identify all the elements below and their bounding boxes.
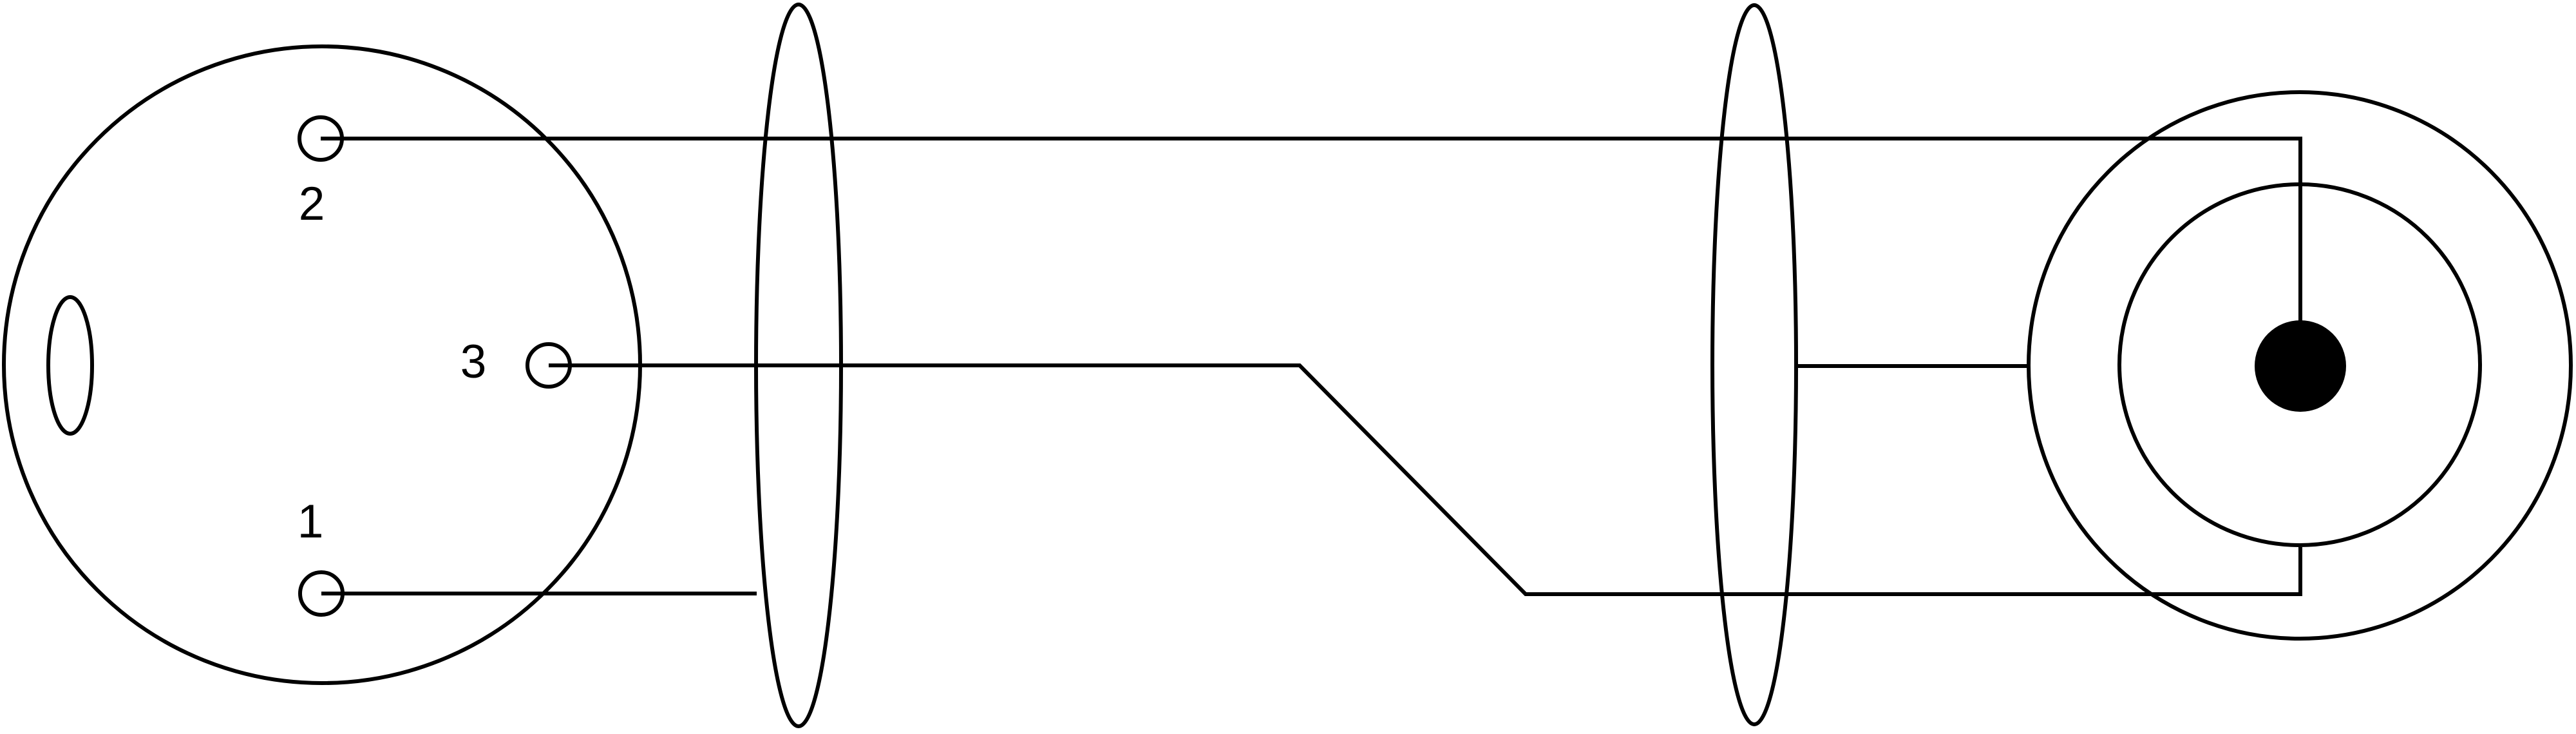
svg-text:2: 2 xyxy=(299,178,325,230)
XLR latch slot (small ellipse) xyxy=(48,297,92,434)
RCA center pin (filled dot) xyxy=(2255,320,2346,412)
wire pin3 to RCA sleeve (with diagonal jog) xyxy=(549,365,2300,594)
XLR connector shell (large circle) xyxy=(4,46,640,683)
wire pin1 to cable shield xyxy=(321,592,757,595)
svg-text:3: 3 xyxy=(460,336,487,388)
pin 1 contact xyxy=(300,572,343,615)
cable shield ellipse 1 xyxy=(756,5,841,726)
pin 3 contact xyxy=(527,344,570,387)
RCA sleeve circle xyxy=(2119,184,2480,545)
RCA outer shell circle xyxy=(2029,92,2571,639)
svg-text:1: 1 xyxy=(298,496,324,548)
pin 2 contact xyxy=(299,117,342,160)
wire shield to RCA shell xyxy=(1798,364,2029,368)
wire pin2 to RCA center xyxy=(321,139,2300,366)
cable shield ellipse 2 xyxy=(1712,5,1796,724)
